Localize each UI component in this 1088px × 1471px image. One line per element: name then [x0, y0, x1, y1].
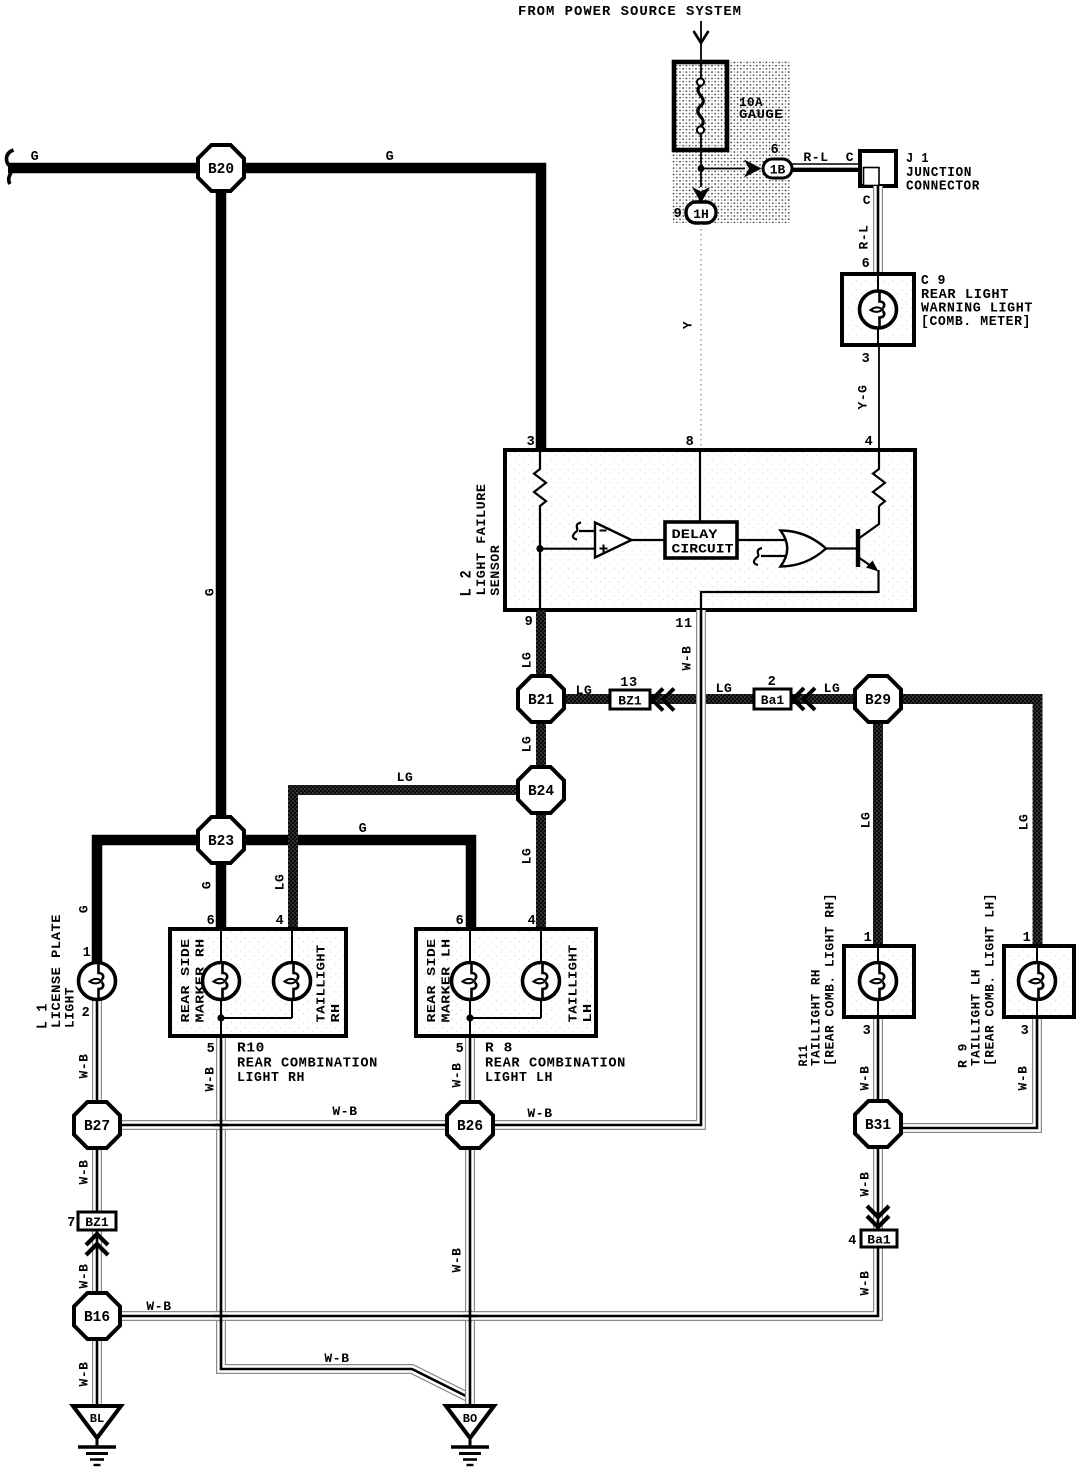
leads in R8 — [470, 929, 541, 1036]
svg-text:B16: B16 — [84, 1310, 110, 1326]
lamp R11 taillight RH bulb — [860, 963, 897, 1000]
svg-text:LH: LH — [581, 1004, 595, 1023]
svg-text:LIGHT: LIGHT — [63, 987, 78, 1028]
svg-text:LG: LG — [1017, 814, 1032, 831]
svg-text:1B: 1B — [770, 163, 786, 178]
svg-text:G: G — [77, 905, 92, 913]
wire op-amp to delay circuit — [632, 539, 666, 541]
shaded halftone area — [672, 60, 791, 223]
break symbol left edge — [6, 150, 13, 184]
wire W-B B27 to BZ1 — [92, 1148, 102, 1212]
svg-text:W-B: W-B — [77, 1362, 92, 1387]
connector 1H — [686, 202, 716, 223]
svg-text:BO: BO — [463, 1412, 477, 1426]
svg-text:[REAR COMB. LIGHT LH]: [REAR COMB. LIGHT LH] — [983, 893, 998, 1066]
svg-text:B27: B27 — [84, 1119, 110, 1135]
wire crossing patches — [214, 1118, 477, 1323]
svg-text:DELAY: DELAY — [672, 528, 719, 542]
svg-text:W-B: W-B — [1016, 1066, 1031, 1091]
connector B20 — [198, 145, 244, 191]
connector Ba1 pin2 — [754, 689, 791, 709]
lamp R8 taillight LH bulb — [523, 963, 560, 1000]
svg-text:6: 6 — [771, 143, 780, 158]
svg-text:LG: LG — [520, 848, 535, 865]
svg-text:W-B: W-B — [146, 1299, 171, 1314]
wire from power source — [700, 21, 702, 78]
OR gate stub input with break — [754, 548, 787, 565]
connector B29 — [855, 676, 901, 722]
wire W-B B27 to B26 — [97, 1120, 470, 1130]
connector BZ1 pin13 — [610, 690, 650, 709]
lamp L1 license plate light bulb — [79, 963, 116, 1000]
wire G from harness to B20 to sensor pin 3 — [8, 168, 541, 450]
wire W-B R10 pin 5 down and right to ground — [221, 1036, 469, 1398]
lamp R10 rear side marker RH bulb — [203, 963, 240, 1000]
wire delay to OR gate — [737, 539, 790, 541]
svg-text:MARKER LH: MARKER LH — [440, 939, 454, 1023]
connector Ba1 pin4 — [861, 1230, 897, 1247]
svg-text:B26: B26 — [457, 1119, 483, 1135]
resistor R-left in sensor — [534, 450, 546, 610]
connector B24 — [518, 767, 564, 813]
wire W-B R8 pin 5 to B26 — [465, 1036, 475, 1125]
light failure sensor L2 box — [505, 450, 915, 610]
wire G from B20 down to B23 and R10 pin 6 — [216, 168, 227, 929]
svg-text:R 8: R 8 — [485, 1042, 513, 1057]
delay circuit box — [665, 522, 737, 558]
wire R-L from 1B to J1 — [792, 164, 860, 170]
svg-text:REAR COMBINATION: REAR COMBINATION — [237, 1057, 378, 1072]
svg-text:3: 3 — [863, 1024, 872, 1039]
wire R8 internal — [470, 1017, 541, 1019]
svg-text:L 2: L 2 — [458, 570, 476, 597]
taillight RH box R11 — [844, 946, 914, 1017]
lamp R10 taillight RH bulb — [274, 963, 311, 1000]
svg-text:LG: LG — [520, 652, 535, 669]
svg-text:W-B: W-B — [858, 1066, 873, 1091]
arrow arrow Ba1 — [793, 688, 815, 710]
wire emitter to pin 11 — [701, 570, 879, 610]
junction node — [698, 165, 705, 172]
svg-text:G: G — [203, 588, 218, 596]
connector B31 — [855, 1101, 901, 1147]
wire Y-G — [878, 345, 880, 450]
rear combination light LH box R8 — [416, 929, 596, 1036]
svg-text:C 9: C 9 — [921, 274, 946, 289]
junction connector J1 — [860, 151, 896, 186]
arrow arrow BZ1 — [652, 689, 674, 711]
lamp box C9 — [842, 274, 914, 345]
svg-text:RH: RH — [329, 1004, 343, 1023]
lamp R8 rear side marker LH bulb — [452, 963, 489, 1000]
svg-text:W-B: W-B — [332, 1104, 357, 1119]
svg-text:REAR SIDE: REAR SIDE — [425, 939, 439, 1023]
wire G from B23 to L1 — [97, 840, 221, 963]
arrow into 1H — [692, 187, 710, 203]
svg-text:GAUGE: GAUGE — [739, 108, 783, 122]
svg-text:C: C — [863, 193, 871, 208]
svg-text:LG: LG — [859, 812, 874, 829]
node in sensor — [536, 545, 543, 552]
OR gate — [781, 531, 827, 567]
transistor Q1 — [858, 506, 879, 572]
svg-text:1: 1 — [1023, 931, 1032, 946]
svg-text:FROM POWER SOURCE SYSTEM: FROM POWER SOURCE SYSTEM — [518, 4, 742, 20]
wire OR to transistor base — [826, 547, 858, 549]
svg-text:LG: LG — [824, 681, 841, 696]
svg-text:3: 3 — [1021, 1024, 1030, 1039]
wire W-B sensor pin 11 to B26 — [470, 610, 701, 1125]
svg-text:Y-G: Y-G — [856, 385, 871, 410]
svg-text:W-B: W-B — [858, 1271, 873, 1296]
svg-text:4: 4 — [528, 914, 537, 929]
connector BZ1 pin7 — [78, 1212, 116, 1230]
svg-text:REAR COMBINATION: REAR COMBINATION — [485, 1057, 626, 1072]
svg-text:LG: LG — [273, 874, 288, 891]
wire R10 internal — [221, 1017, 292, 1019]
svg-text:TAILLIGHT: TAILLIGHT — [567, 944, 581, 1022]
ground BO — [446, 1406, 494, 1465]
svg-text:W-B: W-B — [324, 1351, 349, 1366]
svg-text:4: 4 — [848, 1234, 857, 1249]
wire LG B21 to B29 to R9 pin 1 — [541, 699, 1038, 946]
svg-text:[COMB. METER]: [COMB. METER] — [921, 315, 1031, 330]
leads in R9 — [1036, 946, 1038, 1017]
svg-text:TAILLIGHT: TAILLIGHT — [315, 944, 329, 1022]
connector 1B — [763, 159, 792, 178]
connector B21 — [518, 676, 564, 722]
svg-text:6: 6 — [862, 257, 871, 272]
svg-text:SENSOR: SENSOR — [488, 545, 503, 596]
svg-text:W-B: W-B — [77, 1160, 92, 1185]
svg-text:B24: B24 — [528, 784, 554, 800]
svg-text:Y: Y — [681, 321, 696, 329]
op-amp U1 — [595, 523, 632, 558]
lamp C9 bulb — [860, 291, 897, 328]
svg-text:3: 3 — [862, 352, 871, 367]
rear combination light RH box R10 — [170, 929, 346, 1036]
wire W-B B31 to Ba1 — [873, 1124, 883, 1230]
junction node R10 — [217, 1014, 224, 1021]
svg-text:BZ1: BZ1 — [618, 693, 642, 708]
svg-text:REAR SIDE: REAR SIDE — [179, 939, 193, 1023]
svg-text:G: G — [31, 150, 40, 165]
arrow arrow out BZ1 pin7 — [86, 1234, 108, 1255]
wire W-B B16 to BL ground — [92, 1316, 102, 1406]
svg-text:W-B: W-B — [450, 1063, 465, 1088]
svg-text:LIGHT LH: LIGHT LH — [485, 1071, 553, 1086]
wire LG B24 to R10 pin 4 — [293, 790, 541, 929]
connector B23 — [198, 817, 244, 863]
svg-text:LIGHT FAILURE: LIGHT FAILURE — [474, 484, 489, 596]
wire fuse output — [700, 134, 702, 187]
svg-text:9: 9 — [525, 615, 534, 630]
svg-text:Ba1: Ba1 — [867, 1232, 891, 1247]
leads in R10 — [221, 929, 292, 1036]
svg-text:5: 5 — [456, 1042, 465, 1057]
wire W-B Ba1 to B16 — [97, 1247, 878, 1316]
wire node to op-amp — [540, 548, 595, 550]
connector B26 — [447, 1102, 493, 1148]
leads in R11 — [877, 946, 879, 1017]
wire LG sensor pin 9 through B21 B24 to R8 pin 4 — [536, 610, 546, 929]
svg-text:LG: LG — [397, 770, 414, 785]
svg-text:6: 6 — [207, 914, 216, 929]
svg-text:CIRCUIT: CIRCUIT — [672, 543, 735, 557]
wire W-B L1 to B27 — [92, 1000, 102, 1125]
svg-text:LIGHT RH: LIGHT RH — [237, 1071, 305, 1086]
svg-text:TAILLIGHT LH: TAILLIGHT LH — [969, 969, 984, 1066]
svg-text:R10: R10 — [237, 1042, 265, 1057]
svg-text:W-B: W-B — [858, 1172, 873, 1197]
wire pin 8 into delay circuit — [699, 450, 701, 522]
taillight LH box R9 — [1004, 946, 1074, 1017]
svg-text:9: 9 — [674, 207, 683, 222]
junction node R8 — [466, 1014, 473, 1021]
lamp R9 taillight LH bulb — [1019, 963, 1056, 1000]
svg-text:B20: B20 — [208, 162, 234, 178]
fuse 10A GAUGE — [674, 62, 727, 150]
svg-text:[REAR COMB. LIGHT RH]: [REAR COMB. LIGHT RH] — [823, 893, 838, 1066]
svg-text:6: 6 — [456, 914, 465, 929]
svg-text:G: G — [386, 150, 395, 165]
arrowhead into fuse — [694, 31, 709, 43]
svg-text:R-L: R-L — [803, 150, 828, 165]
wire W-B R11 pin 3 to B31 — [873, 1017, 883, 1124]
svg-text:B21: B21 — [528, 693, 554, 709]
lead in C9 — [877, 274, 879, 345]
svg-text:LG: LG — [576, 683, 593, 698]
svg-text:W-B: W-B — [203, 1067, 218, 1092]
wire W-B B26 to ground B0 — [465, 1125, 475, 1406]
svg-text:J 1: J 1 — [906, 152, 929, 167]
wire W-B R9 pin 3 to B31 — [878, 1017, 1037, 1128]
svg-text:2: 2 — [82, 1006, 91, 1021]
wire LG B29 to R11 pin 1 — [873, 699, 883, 946]
svg-text:R-L: R-L — [857, 225, 872, 250]
svg-text:B31: B31 — [865, 1118, 891, 1134]
wire Y (faint) — [700, 224, 702, 450]
svg-text:C: C — [846, 150, 854, 165]
svg-text:LG: LG — [716, 681, 733, 696]
svg-text:W-B: W-B — [450, 1248, 465, 1273]
svg-text:MARKER RH: MARKER RH — [194, 939, 208, 1023]
svg-text:W-B: W-B — [77, 1054, 92, 1079]
svg-text:BL: BL — [90, 1412, 104, 1426]
svg-text:1H: 1H — [693, 207, 709, 222]
svg-text:TAILLIGHT RH: TAILLIGHT RH — [809, 969, 824, 1066]
svg-text:4: 4 — [276, 914, 285, 929]
svg-text:8: 8 — [686, 435, 695, 450]
wire G from B23 to R8 pin 6 — [221, 840, 471, 929]
svg-text:B23: B23 — [208, 834, 234, 850]
svg-text:1: 1 — [864, 931, 873, 946]
svg-text:11: 11 — [675, 617, 692, 632]
wire to connector 1B — [701, 168, 745, 170]
op-amp minus stub with break — [573, 523, 595, 540]
svg-text:W-B: W-B — [77, 1264, 92, 1289]
svg-text:1: 1 — [83, 946, 92, 961]
svg-text:LG: LG — [520, 736, 535, 753]
connector B27 — [74, 1102, 120, 1148]
wire R-L from J1 to C9 — [873, 186, 883, 274]
svg-text:G: G — [200, 881, 215, 889]
resistor R-right in sensor — [873, 450, 885, 506]
svg-text:3: 3 — [527, 435, 536, 450]
ground BL — [73, 1406, 121, 1465]
svg-text:W-B: W-B — [680, 646, 695, 671]
connector B16 — [74, 1293, 120, 1339]
svg-text:4: 4 — [865, 435, 874, 450]
svg-text:G: G — [359, 822, 368, 837]
svg-text:BZ1: BZ1 — [85, 1215, 109, 1230]
arrow into 1B — [744, 160, 762, 178]
svg-text:5: 5 — [207, 1042, 216, 1057]
svg-text:B29: B29 — [865, 693, 891, 709]
wire W-B BZ1 to B16 — [92, 1230, 102, 1316]
svg-text:W-B: W-B — [527, 1106, 552, 1121]
svg-text:CONNECTOR: CONNECTOR — [906, 180, 980, 195]
arrow arrow into Ba1 pin4 — [867, 1206, 889, 1227]
svg-text:7: 7 — [67, 1216, 76, 1231]
svg-text:Ba1: Ba1 — [761, 693, 785, 708]
